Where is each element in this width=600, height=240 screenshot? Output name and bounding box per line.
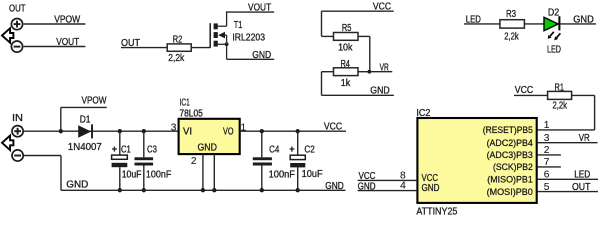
svg-text:GND: GND xyxy=(370,86,390,97)
svg-text:(RESET)PB5: (RESET)PB5 xyxy=(483,125,533,136)
svg-text:VOUT: VOUT xyxy=(56,37,79,48)
svg-text:5: 5 xyxy=(544,182,550,193)
svg-text:(SCK)PB2: (SCK)PB2 xyxy=(493,162,533,173)
svg-text:10uF: 10uF xyxy=(122,169,142,180)
svg-text:VO: VO xyxy=(223,126,234,137)
svg-text:C4: C4 xyxy=(269,145,280,156)
svg-text:4: 4 xyxy=(400,181,406,192)
svg-text:+: + xyxy=(112,144,117,154)
svg-text:78L05: 78L05 xyxy=(179,108,203,119)
svg-text:2: 2 xyxy=(544,145,550,156)
svg-text:IN: IN xyxy=(12,113,23,124)
svg-text:IRL2203: IRL2203 xyxy=(232,33,265,44)
svg-text:2,2k: 2,2k xyxy=(168,53,184,64)
svg-text:+: + xyxy=(289,144,294,154)
svg-text:R3: R3 xyxy=(506,9,517,20)
svg-text:VOUT: VOUT xyxy=(248,2,271,13)
svg-text:ATTINY25: ATTINY25 xyxy=(416,207,457,218)
svg-text:GND: GND xyxy=(422,183,440,194)
svg-text:VR: VR xyxy=(579,133,590,144)
svg-text:7: 7 xyxy=(544,157,550,168)
svg-text:(ADC3)PB3: (ADC3)PB3 xyxy=(487,150,533,161)
svg-text:3: 3 xyxy=(171,123,177,134)
svg-text:2: 2 xyxy=(191,156,197,167)
svg-text:1k: 1k xyxy=(341,78,351,89)
svg-text:6: 6 xyxy=(544,170,550,181)
svg-text:GND: GND xyxy=(358,181,376,192)
svg-text:VPOW: VPOW xyxy=(54,15,81,26)
svg-text:OUT: OUT xyxy=(572,182,591,193)
svg-text:D1: D1 xyxy=(80,115,91,126)
svg-text:R4: R4 xyxy=(340,59,350,70)
svg-text:VI: VI xyxy=(183,126,192,137)
svg-text:VCC: VCC xyxy=(373,1,391,12)
svg-text:10uF: 10uF xyxy=(302,169,323,180)
svg-text:D2: D2 xyxy=(548,7,559,18)
svg-text:10k: 10k xyxy=(338,43,352,54)
svg-text:1: 1 xyxy=(240,123,246,134)
svg-text:100nF: 100nF xyxy=(146,169,171,180)
svg-text:2,2k: 2,2k xyxy=(552,101,567,112)
svg-text:R2: R2 xyxy=(173,35,183,46)
svg-text:GND: GND xyxy=(66,180,88,191)
svg-text:C2: C2 xyxy=(304,145,314,156)
svg-text:(MISO)PB1: (MISO)PB1 xyxy=(487,175,533,186)
svg-text:VCC: VCC xyxy=(324,122,342,133)
svg-text:VR: VR xyxy=(380,62,389,73)
svg-text:GND: GND xyxy=(197,143,217,154)
svg-text:T1: T1 xyxy=(234,20,243,31)
svg-text:VCC: VCC xyxy=(515,85,534,96)
svg-text:GND: GND xyxy=(325,181,344,192)
svg-text:GND: GND xyxy=(252,50,271,61)
svg-text:2,2k: 2,2k xyxy=(504,32,518,43)
svg-text:LED: LED xyxy=(547,45,561,56)
svg-text:IC1: IC1 xyxy=(180,97,190,108)
svg-text:VPOW: VPOW xyxy=(82,96,108,107)
svg-text:3: 3 xyxy=(544,133,550,144)
svg-text:R1: R1 xyxy=(555,82,565,93)
svg-text:LED: LED xyxy=(574,170,590,181)
svg-text:(MOSI)PB0: (MOSI)PB0 xyxy=(487,187,533,198)
svg-text:C3: C3 xyxy=(147,144,157,155)
svg-text:1N4007: 1N4007 xyxy=(68,142,102,153)
svg-text:OUT: OUT xyxy=(9,3,26,14)
svg-text:GND: GND xyxy=(573,15,594,26)
svg-text:C1: C1 xyxy=(121,144,131,155)
svg-text:100nF: 100nF xyxy=(269,169,295,180)
svg-text:(ADC2)PB4: (ADC2)PB4 xyxy=(487,138,534,149)
svg-text:R5: R5 xyxy=(342,23,352,34)
svg-text:1: 1 xyxy=(544,120,550,131)
